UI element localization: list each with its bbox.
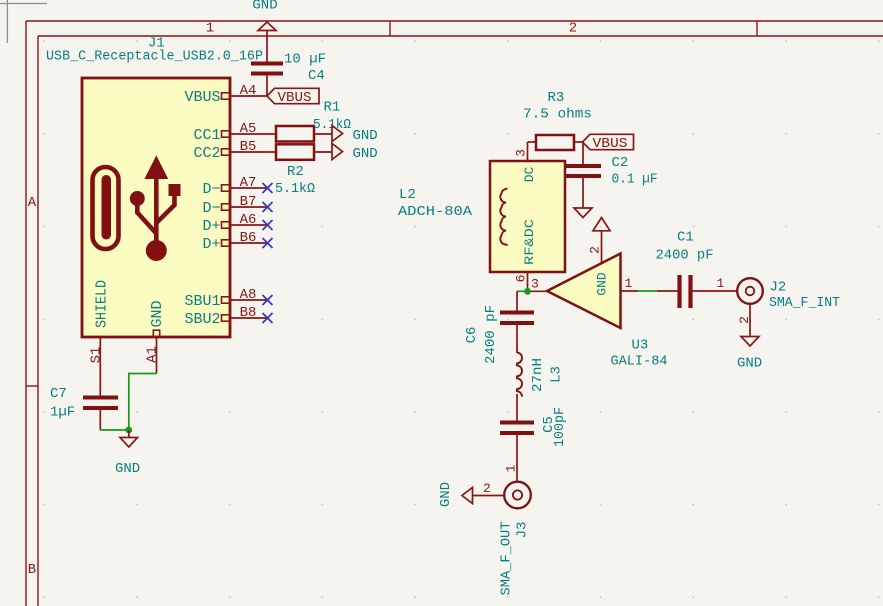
svg-text:D+: D+ xyxy=(202,218,220,235)
svg-text:7.5 ohms: 7.5 ohms xyxy=(523,107,592,123)
power symbol GND (CC1) xyxy=(332,126,378,145)
svg-text:J3: J3 xyxy=(514,522,530,539)
svg-text:DC: DC xyxy=(522,167,537,183)
wire L2 pin3 to R3 xyxy=(528,141,537,143)
svg-text:C4: C4 xyxy=(308,68,325,84)
svg-text:C2: C2 xyxy=(612,155,629,171)
svg-text:B6: B6 xyxy=(240,230,257,246)
svg-text:10 µF: 10 µF xyxy=(284,52,326,68)
global label VBUS (at R3) xyxy=(583,134,634,152)
svg-text:L2: L2 xyxy=(399,187,416,203)
svg-text:R2: R2 xyxy=(287,164,304,180)
no-connect X at pin B7 xyxy=(263,202,273,212)
wire C4 to VBUS node xyxy=(266,74,268,97)
svg-text:C7: C7 xyxy=(50,386,67,402)
wire VBUS node down to C2 xyxy=(582,142,584,166)
svg-text:2: 2 xyxy=(588,246,603,254)
wire C6 to L3 xyxy=(516,325,518,353)
L2 pin 6 xyxy=(514,272,529,291)
junction node xyxy=(524,288,531,295)
J1 pin B6 (D+) xyxy=(202,230,267,253)
wire C2 to GND xyxy=(582,176,584,208)
J1 pin S1 (SHIELD) xyxy=(88,280,110,376)
J1 pin A7 (D−) xyxy=(202,175,267,198)
svg-text:U3: U3 xyxy=(632,338,649,354)
svg-text:SBU2: SBU2 xyxy=(184,311,220,328)
svg-text:USB_C_Receptacle_USB2.0_16P: USB_C_Receptacle_USB2.0_16P xyxy=(46,49,263,65)
svg-text:0.1 µF: 0.1 µF xyxy=(612,172,658,188)
capacitor C6 xyxy=(500,313,534,324)
no-connect X at pin A8 xyxy=(263,295,273,305)
svg-text:B7: B7 xyxy=(240,194,257,210)
wire C5 to J3 xyxy=(516,435,518,481)
power symbol GND (C2) xyxy=(574,208,592,218)
svg-text:GND: GND xyxy=(353,128,378,144)
svg-text:27nH: 27nH xyxy=(530,358,546,392)
wire R3 to VBUS label xyxy=(574,141,583,143)
connector J1 body xyxy=(82,78,230,337)
svg-text:6: 6 xyxy=(514,275,529,283)
svg-text:GND: GND xyxy=(737,356,762,372)
wire J3 pin 2 to GND arrow xyxy=(473,495,505,497)
svg-text:ADCH-80A: ADCH-80A xyxy=(398,204,473,220)
svg-text:D+: D+ xyxy=(202,236,220,253)
wire junction down to C6 xyxy=(516,291,518,310)
capacitor C5 xyxy=(500,423,534,434)
svg-text:3: 3 xyxy=(531,277,539,292)
svg-text:SBU1: SBU1 xyxy=(184,293,220,310)
inductor L3 xyxy=(517,353,522,397)
svg-text:RF&DC: RF&DC xyxy=(522,219,537,265)
J1 pin B7 (D−) xyxy=(202,194,267,217)
svg-text:D−: D− xyxy=(202,181,220,198)
U3 pin 1 stub xyxy=(621,290,639,292)
svg-text:GND: GND xyxy=(252,0,277,14)
svg-text:R1: R1 xyxy=(324,100,341,116)
svg-text:1: 1 xyxy=(206,21,214,37)
svg-text:CC1: CC1 xyxy=(193,127,220,144)
svg-text:A1: A1 xyxy=(144,346,160,363)
svg-text:1: 1 xyxy=(504,464,519,472)
global label VBUS (at J1) xyxy=(267,88,319,106)
svg-text:R3: R3 xyxy=(548,90,565,106)
svg-text:A7: A7 xyxy=(240,175,257,191)
wire (green) A1 to junction xyxy=(129,374,157,431)
connector J3 xyxy=(504,482,531,509)
svg-text:B: B xyxy=(28,562,36,578)
svg-text:SMA_F_INT: SMA_F_INT xyxy=(769,295,840,311)
svg-text:1: 1 xyxy=(717,276,725,291)
no-connect X at pin B8 xyxy=(263,313,273,323)
resistor R2 xyxy=(268,144,333,180)
J1 pin B8 (SBU2) xyxy=(184,305,267,328)
svg-text:2: 2 xyxy=(483,481,491,496)
wire to C1 xyxy=(657,290,678,292)
connector J2 xyxy=(737,278,763,304)
wire (green) C7 to junction xyxy=(100,429,129,431)
capacitor C2 xyxy=(565,166,601,176)
wire J2 pin 2 to GND xyxy=(749,304,751,337)
capacitor C7 xyxy=(83,398,118,409)
J1 pin B5 (CC2) xyxy=(193,139,267,162)
svg-text:A8: A8 xyxy=(240,287,257,303)
J1 pin A4 (VBUS) xyxy=(184,83,267,106)
USB logo trident xyxy=(130,157,180,261)
no-connect X at pin A7 xyxy=(263,183,273,193)
J1 pin A1 (GND) xyxy=(144,300,166,373)
svg-text:5.1kΩ: 5.1kΩ xyxy=(275,181,315,197)
power symbol GND (J3) xyxy=(462,488,473,504)
sheet origin crosshair xyxy=(0,0,47,43)
power symbol GND (J2) xyxy=(741,337,759,347)
J1 pin A5 (CC1) xyxy=(193,121,267,144)
svg-text:2: 2 xyxy=(737,316,752,324)
wire S1 to C7 xyxy=(99,376,101,396)
power symbol GND (U3 pin2) xyxy=(593,218,610,231)
wire junction to U3 pin 3 xyxy=(528,290,548,292)
svg-text:1µF: 1µF xyxy=(50,405,75,421)
svg-text:D−: D− xyxy=(202,200,220,217)
svg-text:SHIELD: SHIELD xyxy=(94,280,111,328)
svg-text:2400 pF: 2400 pF xyxy=(483,305,499,364)
capacitor C1 xyxy=(680,275,691,308)
power symbol GND (top) xyxy=(258,22,276,31)
wire junction to GND symbol xyxy=(128,430,130,438)
svg-text:GALI-84: GALI-84 xyxy=(611,354,668,370)
J1 pin A8 (SBU1) xyxy=(184,287,267,310)
svg-text:1: 1 xyxy=(625,276,633,291)
wire (green) U3 out xyxy=(638,290,657,292)
svg-text:GND: GND xyxy=(115,461,140,477)
resistor R3 xyxy=(523,90,592,150)
svg-text:2400 pF: 2400 pF xyxy=(656,248,714,264)
svg-text:GND: GND xyxy=(438,482,454,507)
svg-text:VBUS: VBUS xyxy=(278,90,312,106)
wire C7 down xyxy=(99,410,101,430)
wire (green) junction left xyxy=(517,290,528,292)
svg-text:B8: B8 xyxy=(240,305,257,321)
svg-text:2: 2 xyxy=(569,21,577,37)
svg-text:B5: B5 xyxy=(240,139,257,155)
svg-text:GND: GND xyxy=(149,300,166,327)
wire L3 to C5 xyxy=(516,394,518,421)
amplifier U3 body xyxy=(547,254,621,329)
svg-text:100pF: 100pF xyxy=(552,407,568,447)
power symbol GND (C7) xyxy=(120,438,138,448)
power symbol GND (CC2) xyxy=(332,144,378,163)
capacitor C4 xyxy=(251,64,283,74)
svg-text:C1: C1 xyxy=(677,230,694,246)
svg-text:GND: GND xyxy=(353,146,378,162)
svg-text:L3: L3 xyxy=(548,366,564,383)
svg-text:GND: GND xyxy=(595,272,610,296)
svg-text:VBUS: VBUS xyxy=(593,136,628,152)
svg-text:J2: J2 xyxy=(770,280,787,296)
svg-text:A: A xyxy=(28,195,37,211)
svg-text:3: 3 xyxy=(514,149,529,157)
L2 pin 3 xyxy=(514,142,529,161)
svg-text:C6: C6 xyxy=(464,327,480,344)
wire GND to U3 pin 2 xyxy=(601,231,603,263)
no-connect X at pin B6 xyxy=(263,238,273,248)
svg-text:A5: A5 xyxy=(240,121,257,137)
L2 coil symbol xyxy=(500,189,507,246)
svg-text:S1: S1 xyxy=(88,347,104,364)
svg-text:SMA_F_OUT: SMA_F_OUT xyxy=(498,522,514,596)
svg-text:CC2: CC2 xyxy=(193,145,220,162)
no-connect X at pin A6 xyxy=(263,220,273,230)
wire C1 to J2 xyxy=(693,290,738,292)
svg-text:A4: A4 xyxy=(240,83,257,99)
wire GND to C4 xyxy=(266,31,268,64)
J1 pin A6 (D+) xyxy=(202,212,267,235)
resistor R1 xyxy=(268,100,352,142)
inductor block L2 body xyxy=(490,161,565,272)
svg-text:A6: A6 xyxy=(240,212,257,228)
svg-text:VBUS: VBUS xyxy=(184,89,220,106)
USB logo capsule xyxy=(93,167,119,249)
junction node (GND net) xyxy=(125,427,132,434)
